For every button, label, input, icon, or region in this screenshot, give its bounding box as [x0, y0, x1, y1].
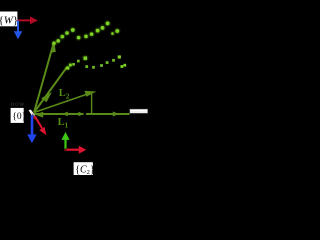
- left arrowhead at hub: [35, 112, 43, 118]
- top trajectory dots: [52, 22, 119, 46]
- frame 0: red x axis arrow (down-right): [35, 117, 46, 136]
- frame C2: red x axis arrow (right): [66, 146, 87, 154]
- svg-text:{0}: {0}: [12, 112, 26, 122]
- right arrowhead before gap: [78, 112, 84, 117]
- square marker at F2 tip: [66, 67, 69, 70]
- frame C2: junction dark mark: [64, 149, 67, 152]
- frame 0: white base sliver: [29, 110, 35, 117]
- L2 dimension diagonal: [34, 92, 93, 113]
- frame 0: white label box: [11, 108, 24, 123]
- frame 0: dark red sliver under sliver: [31, 114, 37, 119]
- svg-text:{C2}: {C2}: [75, 165, 95, 175]
- frame W: red x axis arrow: [17, 16, 37, 24]
- fan line F1 (steep arm pose): [34, 44, 55, 113]
- frame W: blue z axis arrow: [14, 21, 22, 40]
- frame C2: green y axis arrow (up): [61, 132, 69, 150]
- frame 0: blue z axis arrow (down): [27, 115, 36, 143]
- lower trajectory marks: [66, 55, 126, 69]
- left arrowhead mid: [62, 112, 68, 117]
- horizontal arm line: [34, 113, 84, 115]
- vertical extension line at elbow: [91, 94, 93, 114]
- svg-text:{W}: {W}: [0, 15, 18, 27]
- white stick object: [130, 109, 148, 113]
- frame W: white label box: [0, 12, 17, 27]
- fan line F2 (mid arm pose): [34, 68, 67, 113]
- right arrowhead near stick: [113, 112, 119, 117]
- svg-text:now: now: [11, 100, 25, 108]
- frame C2: white label box: [74, 162, 93, 175]
